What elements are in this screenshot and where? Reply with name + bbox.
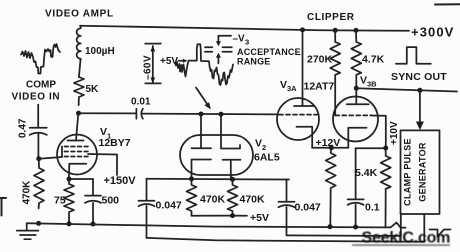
tube V3B envelope (12AT7 section B) — [333, 97, 378, 142]
V2 diode D1 plate and lead — [192, 114, 212, 148]
wire: 0.47 to grid node — [37, 134, 39, 159]
node: 500 to ground bus — [91, 222, 96, 227]
svg-text:V: V — [280, 79, 287, 91]
svg-text:5.4K: 5.4K — [355, 167, 378, 179]
svg-text:12BY7: 12BY7 — [99, 137, 131, 149]
wire: V2 cathode bus — [147, 178, 290, 181]
node: V2 diode D1 plate tap — [199, 112, 204, 117]
icon: composite video input waveform — [21, 44, 60, 74]
capacitor C 500 cathode bypass — [85, 179, 101, 224]
V1 control grid bracket — [61, 147, 63, 158]
svg-text:12AT7: 12AT7 — [304, 81, 335, 93]
icon: clamp pulse waveform (negative) — [430, 230, 451, 237]
wire: grid node to V1 control grid — [39, 157, 62, 159]
node: +10V grid bias — [383, 146, 388, 151]
wire: cathode node to 500pF — [69, 178, 93, 180]
node: V1 cathode junction — [67, 177, 72, 182]
capacitor C 0.047 (left) with lead to clamp line — [139, 179, 155, 238]
resistor R 270K grid bias — [330, 30, 340, 115]
icon: -60V dimension arrow with ticks — [145, 44, 161, 84]
artifact: top right scan line — [435, 3, 460, 5]
icon: arrow from waveform to diode node — [196, 88, 208, 105]
icon: -V3 acceptance range pointer — [205, 36, 232, 64]
node: top rail / V3A plate — [300, 27, 305, 32]
svg-text:V: V — [255, 138, 262, 150]
svg-text:0.47: 0.47 — [18, 118, 29, 138]
tube V2 6AL5 envelope — [180, 135, 253, 175]
node: V1 grid / 470K junction — [36, 156, 41, 161]
resistor R 75 cathode — [64, 179, 74, 224]
node: 75 to ground bus — [67, 221, 72, 226]
wire: video bus from node A to 0.01 — [79, 112, 136, 114]
node: D2 cathode / 470K — [230, 177, 235, 182]
svg-text:470K: 470K — [22, 180, 33, 205]
watermark: SeekIC.com — [352, 230, 450, 247]
svg-text:100µH: 100µH — [85, 46, 115, 57]
capacitor C 0.1 bypass — [348, 148, 364, 227]
resistor R 470K (left diode load) — [187, 179, 197, 216]
wire: sync tap arrow into clamp box — [419, 90, 421, 123]
svg-text:0.01: 0.01 — [131, 97, 151, 108]
wire: +300V top supply rail — [80, 26, 409, 31]
tube V1 12BY7 envelope — [57, 135, 97, 175]
V2 diode D2 cathode and lead down — [223, 160, 241, 179]
svg-text:SeekIC.com: SeekIC.com — [362, 230, 451, 247]
wire: clamp box output lead (right) — [423, 214, 425, 242]
svg-text:75: 75 — [54, 195, 66, 207]
V3A cathode with lead to +12V node — [297, 127, 313, 148]
V2 diode D2 plate with lead from video bus — [221, 114, 240, 148]
svg-text:470K: 470K — [240, 194, 266, 206]
capacitor C 0.01 coupling — [136, 109, 143, 119]
svg-text:CLIPPER: CLIPPER — [307, 12, 355, 23]
svg-text:+150V: +150V — [104, 175, 137, 187]
node: V2 diode D2 plate tap — [219, 112, 224, 117]
svg-text:5K: 5K — [86, 84, 100, 95]
svg-text:270K: 270K — [307, 54, 333, 66]
svg-text:–60V: –60V — [143, 55, 154, 80]
V1 plate and lead to node A — [68, 113, 84, 140]
wire: clamp pulse feed line (long bottom) — [147, 238, 425, 242]
clamp pulse generator box — [401, 130, 440, 214]
node: top rail / 4.7K — [354, 28, 359, 33]
resistor R 5.4K bias divider — [381, 148, 391, 227]
icon: clamp pulse spike on ground bus — [388, 223, 406, 228]
svg-text:GENERATOR: GENERATOR — [418, 142, 428, 202]
artifact: left edge scan mark — [0, 198, 6, 216]
node: 0.1 to ground bus — [353, 225, 358, 230]
node A: 5K / 0.01 / V1 plate junction — [76, 111, 81, 116]
node: cathode resistor to ground bus — [328, 224, 333, 229]
svg-text:0.1: 0.1 — [365, 202, 380, 214]
wire: +10V node to 0.1 — [356, 147, 386, 149]
svg-text:+10V: +10V — [389, 121, 400, 145]
svg-text:470K: 470K — [200, 194, 226, 206]
node: V3B plate / sync line — [354, 86, 359, 91]
node: top rail / 270K — [333, 28, 338, 33]
capacitor C 0.47 input coupling — [30, 128, 47, 135]
wire: clamp box output lead (left) — [400, 214, 402, 236]
svg-text:COMP: COMP — [26, 80, 56, 91]
node: +5V line junction — [230, 213, 235, 218]
resistor R 470K (right diode load) — [228, 179, 238, 215]
V1 grids (dashed) — [65, 147, 91, 157]
svg-text:3B: 3B — [367, 80, 377, 89]
resistor 5K — [74, 77, 84, 105]
svg-text:+300V: +300V — [411, 25, 454, 40]
svg-text:500: 500 — [102, 195, 120, 207]
wire: ground bus — [27, 223, 388, 227]
svg-text:3: 3 — [245, 38, 249, 47]
svg-text:–V: –V — [233, 34, 246, 45]
V3A grid (dashed) — [279, 114, 317, 116]
svg-text:0.047: 0.047 — [156, 200, 182, 212]
wire: coil to 5K — [79, 60, 81, 77]
capacitor C 0.047 (right) with lead to clamp line — [279, 180, 295, 236]
svg-text:RANGE: RANGE — [237, 57, 271, 67]
resistor R cathode (common) — [326, 148, 336, 227]
node: D1 cathode / 470K — [189, 176, 194, 181]
wire: +5V return line — [192, 215, 248, 217]
svg-text:V: V — [360, 75, 367, 87]
icon: clipped video waveform (acceptance figure) — [175, 44, 233, 85]
svg-text:VIDEO AMPL: VIDEO AMPL — [45, 9, 114, 20]
V3B grid (dashed) with lead to +10V node — [335, 114, 371, 116]
tube V3A envelope (12AT7 section A) — [277, 98, 319, 140]
svg-text:3A: 3A — [287, 84, 297, 93]
svg-text:ACCEPTANCE: ACCEPTANCE — [237, 47, 301, 57]
svg-text:CLAMP PULSE: CLAMP PULSE — [403, 138, 413, 206]
svg-text:0.047: 0.047 — [295, 202, 321, 214]
wire: input lead to 0.47 — [37, 105, 39, 128]
svg-text:4.7K: 4.7K — [362, 54, 385, 66]
V1 cathode and lead — [69, 164, 86, 179]
svg-text:+5V: +5V — [250, 212, 269, 224]
V3A plate with lead from top rail — [294, 30, 314, 106]
wire: sync output line from V3B plate — [356, 88, 457, 91]
svg-text:SYNC OUT: SYNC OUT — [391, 71, 447, 83]
wire: common cathode +12V node — [312, 147, 348, 149]
node: 470K to ground bus — [36, 221, 41, 226]
svg-text:+12V: +12V — [316, 137, 341, 149]
V3B cathode with lead to +12V node — [348, 128, 366, 148]
wire: video bus from 0.01 to V3A grid — [143, 113, 278, 116]
node: sync line / clamp trigger tap — [417, 88, 422, 93]
wire: right clamp feed line — [287, 234, 401, 237]
V1 screen grid lead to +150V — [88, 154, 117, 175]
svg-text:6AL5: 6AL5 — [254, 152, 280, 164]
ground symbol — [17, 223, 39, 239]
V2 diode D1 cathode and lead down — [192, 160, 212, 179]
resistor R 470K grid leak — [34, 159, 44, 209]
icon: sync output pulse — [396, 47, 431, 64]
inductor 100uH peaking coil — [77, 26, 81, 60]
svg-text:VIDEO IN: VIDEO IN — [12, 92, 61, 103]
node: +12V / cathode resistor — [329, 145, 334, 150]
V3B plate bar — [347, 103, 369, 105]
resistor R 4.7K plate load — [351, 30, 361, 104]
